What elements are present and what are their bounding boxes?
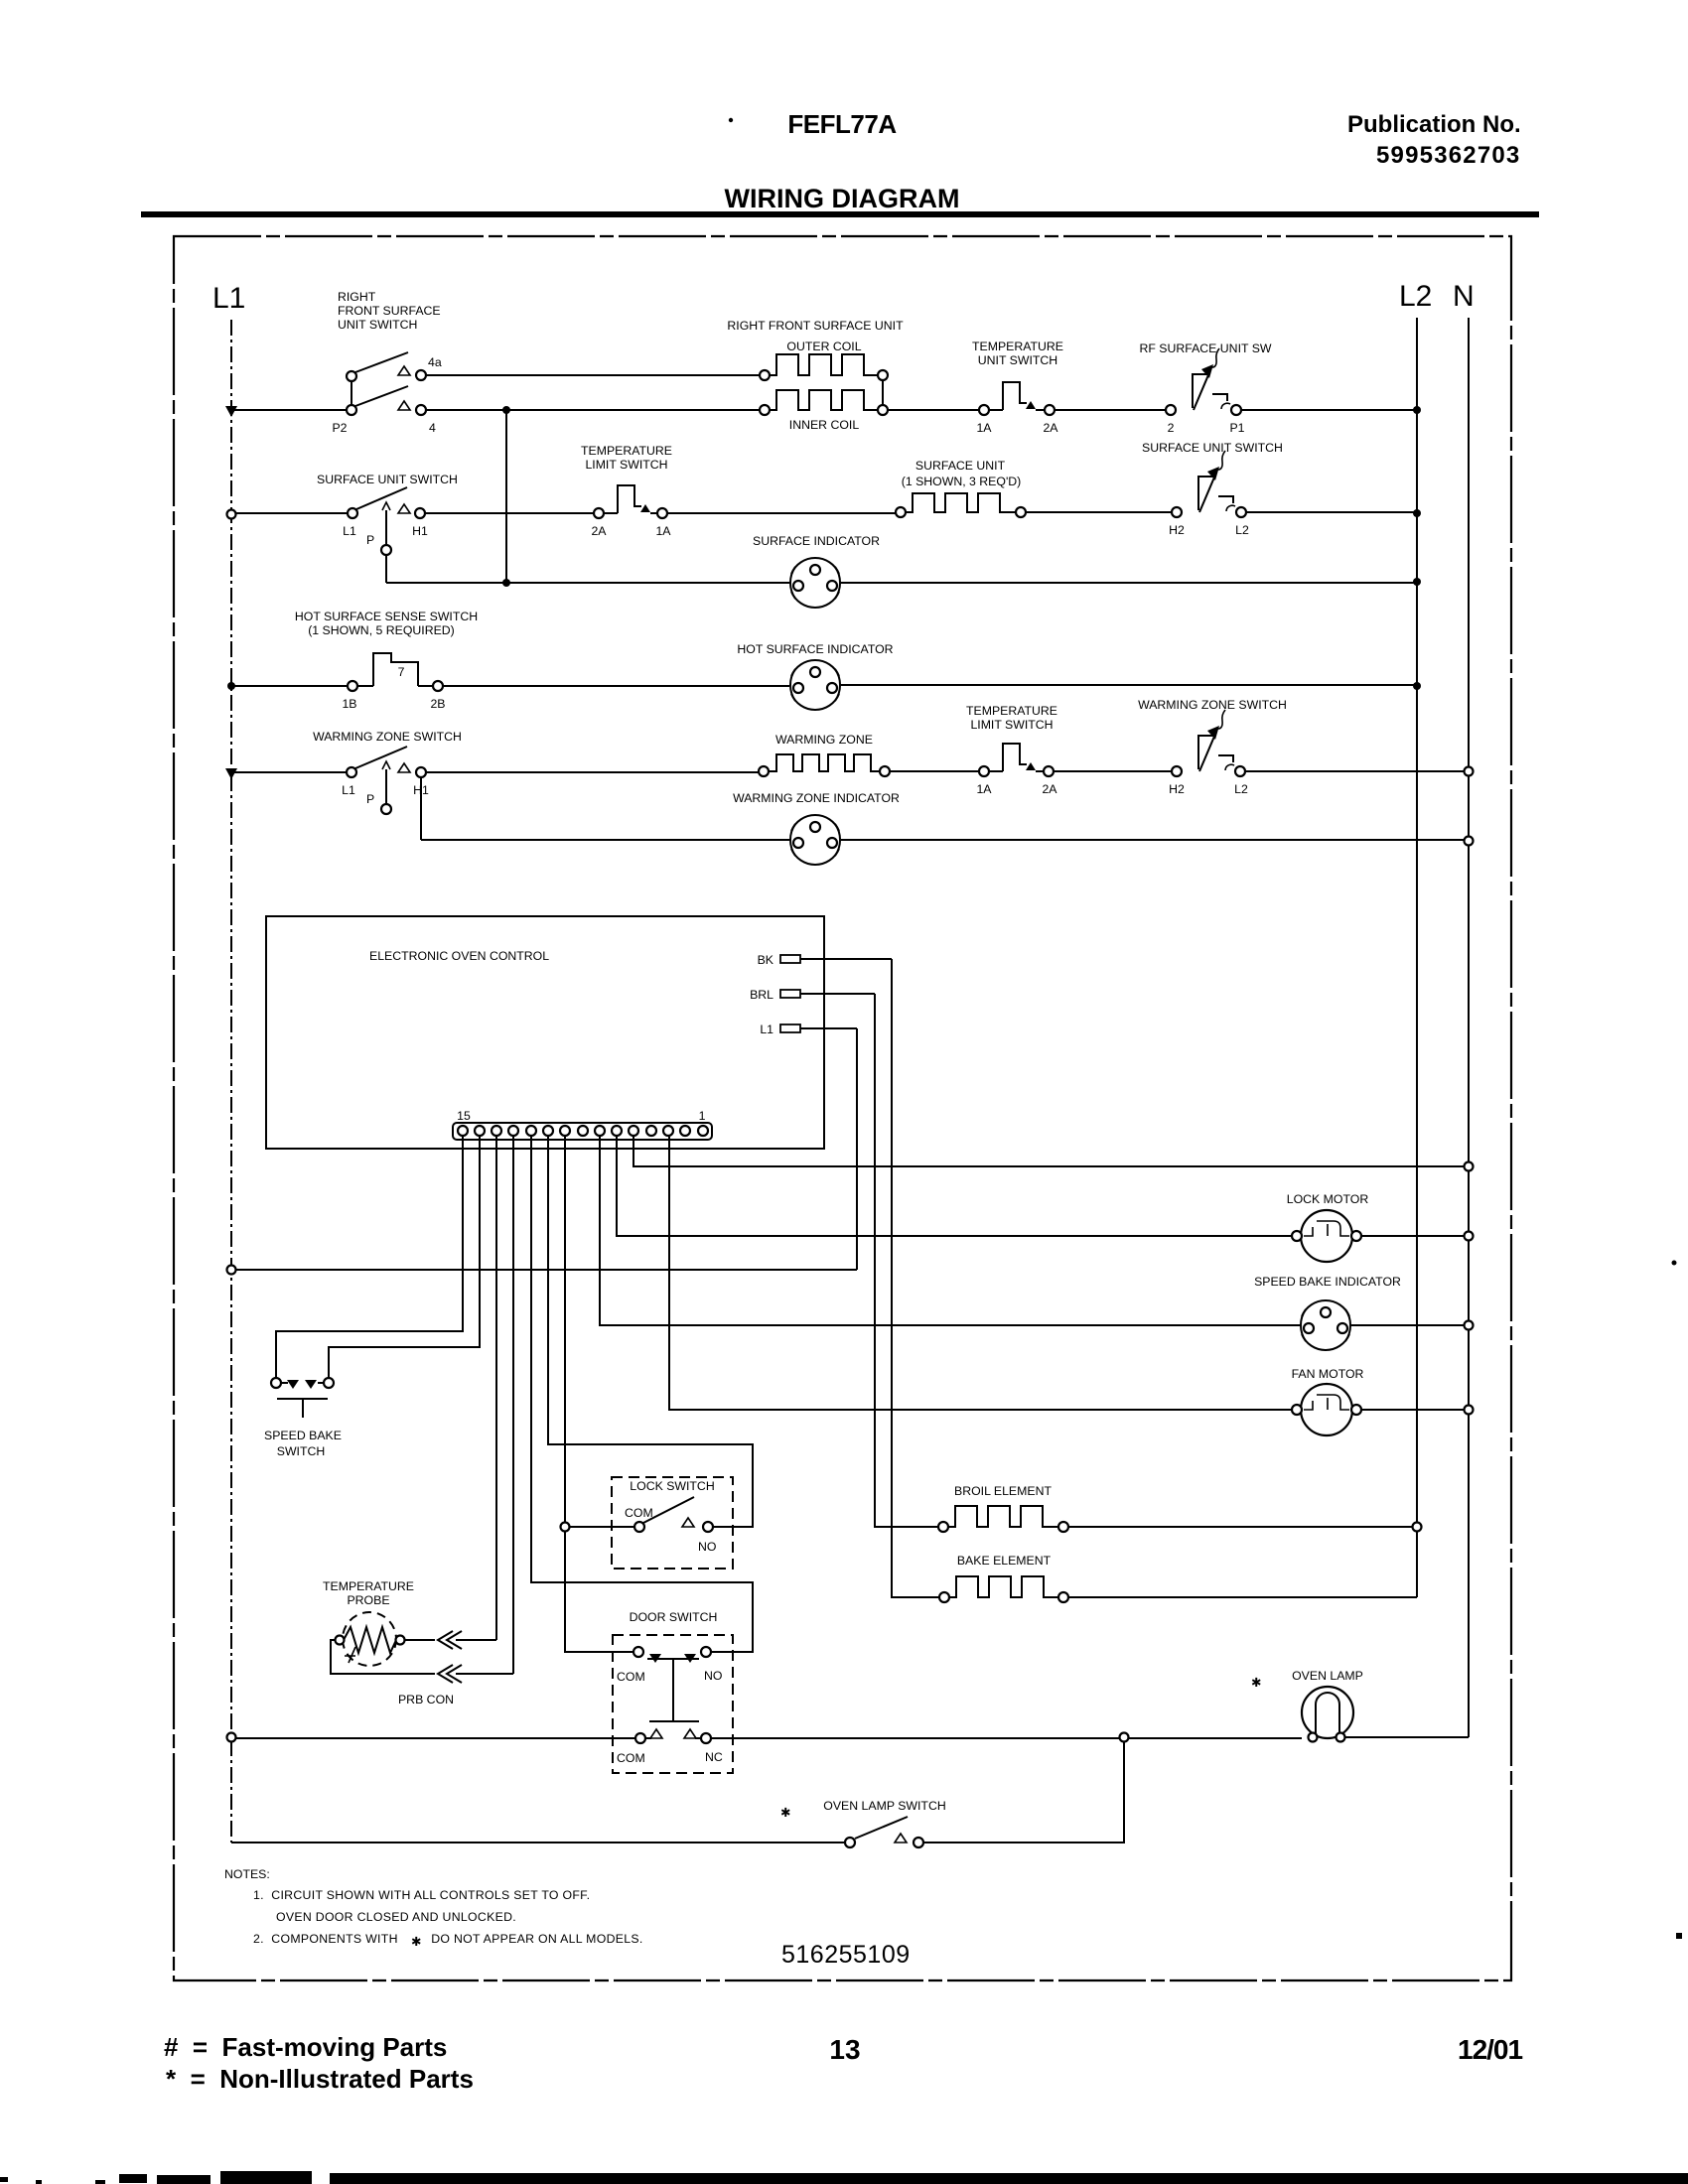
switch RF surface unit sw (1166, 348, 1241, 415)
thermostat temperature unit switch row1 (979, 382, 1055, 415)
svg-text:2. COMPONENTS WITH DO: 2. COMPONENTS WITH DO NOT APPEAR ON ALL … (253, 1932, 643, 1946)
junction arrow L1 row4 (225, 768, 237, 779)
resistor temperature probe (336, 1612, 405, 1666)
wire pin10 to lock switch NO (548, 1137, 753, 1527)
wire pin12 to probe connector (512, 1137, 514, 1674)
junction circle speed bake indicator/N (1465, 1321, 1474, 1330)
svg-text:(1 SHOWN, 3 REQ'D): (1 SHOWN, 3 REQ'D) (902, 475, 1022, 488)
wire pin15 to speed bake switch (276, 1137, 463, 1378)
svg-text:1B: 1B (342, 697, 356, 711)
svg-text:TEMPERATURE: TEMPERATURE (972, 340, 1063, 353)
junction circle L1/lamp row (227, 1733, 236, 1742)
wire lamp switch up to lamp row (923, 1742, 1124, 1843)
svg-text:LOCK MOTOR: LOCK MOTOR (1287, 1192, 1369, 1206)
junction dot L1 row3 (227, 682, 235, 690)
svg-text:TEMPERATURE: TEMPERATURE (323, 1579, 414, 1593)
wire L1 to door switch NC row (236, 1737, 635, 1739)
junction circle L1 row2 (227, 510, 236, 519)
junction arrow L1 row1 (225, 406, 237, 417)
outer dashed border of diagram (174, 236, 1511, 1980)
svg-text:DOOR SWITCH: DOOR SWITCH (630, 1610, 718, 1624)
wire 2A to warming zone switch right (1054, 770, 1172, 772)
wire oven lamp to N corner (1345, 1736, 1469, 1738)
svg-text:COM: COM (625, 1506, 653, 1520)
wire indicator row left (386, 582, 789, 584)
wire BK down to bake element (892, 959, 939, 1597)
wire P1 to L2 (1241, 409, 1417, 411)
svg-text:4: 4 (429, 421, 436, 435)
connector chevron upper (438, 1631, 462, 1649)
wire 4a to outer coil (426, 374, 760, 376)
wire lock COM feed (570, 1526, 634, 1528)
svg-text:SWITCH: SWITCH (277, 1444, 326, 1458)
svg-text:H2: H2 (1169, 523, 1185, 537)
svg-text:TEMPERATURE: TEMPERATURE (581, 444, 672, 458)
speck dot left of title (729, 118, 733, 122)
svg-text:L2: L2 (1235, 523, 1249, 537)
svg-text:P2: P2 (332, 421, 347, 435)
svg-text:(1 SHOWN, 5 REQUIRED): (1 SHOWN, 5 REQUIRED) (308, 623, 455, 637)
svg-text:UNIT SWITCH: UNIT SWITCH (978, 353, 1057, 367)
wire EOC L1 down to L1 row (856, 1028, 858, 1270)
svg-text:H1: H1 (412, 524, 428, 538)
svg-text:✱: ✱ (1251, 1676, 1261, 1690)
wire door NC to oven lamp (711, 1737, 1302, 1739)
svg-text:LIMIT SWITCH: LIMIT SWITCH (585, 458, 667, 472)
svg-text:WARMING ZONE INDICATOR: WARMING ZONE INDICATOR (733, 791, 900, 805)
junction dot row3/L2 (1413, 682, 1421, 690)
wire probe left lead loop (331, 1640, 435, 1674)
wire H1 to warming zone coil (426, 771, 759, 773)
lamp oven lamp (1302, 1687, 1353, 1742)
heater outer coil (760, 354, 888, 380)
svg-text:2A: 2A (591, 524, 607, 538)
wire L1 lead (800, 1027, 857, 1029)
switch speed bake switch (271, 1378, 334, 1418)
wire warming zone switch to N (1245, 770, 1465, 772)
switch warming zone switch right (1172, 710, 1245, 776)
wire BRL lead (800, 993, 875, 995)
svg-text:OVEN DOOR CLOSED AND UNLOCKED.: OVEN DOOR CLOSED AND UNLOCKED. (276, 1910, 516, 1924)
svg-text:2A: 2A (1042, 782, 1057, 796)
svg-text:COM: COM (617, 1751, 645, 1765)
svg-text:NOTES:: NOTES: (224, 1867, 270, 1881)
junction circle lock switch feed (561, 1523, 570, 1532)
wire bake element to L2 end (1068, 1596, 1417, 1598)
junction dot row1 node to indicator feeder (502, 406, 510, 414)
svg-text:L1: L1 (342, 783, 355, 797)
wire warming zone indicator to N (841, 839, 1465, 841)
svg-text:L1: L1 (760, 1023, 774, 1036)
wire warming zone indicator row left (421, 839, 789, 841)
svg-text:WARMING ZONE: WARMING ZONE (775, 733, 873, 747)
scan artifact specks (1672, 1261, 1677, 1266)
svg-text:7: 7 (398, 665, 405, 679)
wire fan motor to N (1361, 1409, 1465, 1411)
svg-text:TEMPERATURE: TEMPERATURE (966, 704, 1057, 718)
lamp hot surface indicator (790, 660, 840, 710)
wire coil to temperature limit switch row4 (890, 770, 979, 772)
svg-text:P: P (366, 792, 374, 806)
junction dot indicator row/L2 (1413, 578, 1421, 586)
switch oven lamp switch (845, 1817, 923, 1847)
wire coil to surface unit switch right row2 (1026, 511, 1172, 513)
switch S1 right front surface unit switch (347, 352, 426, 415)
wire pin13 to probe connector (495, 1137, 497, 1640)
wire 2A to RF switch (1055, 409, 1166, 411)
svg-text:516255109: 516255109 (781, 1941, 911, 1969)
svg-text:L1: L1 (212, 282, 245, 315)
svg-text:FEFL77A: FEFL77A (787, 109, 897, 139)
svg-text:WARMING ZONE SWITCH: WARMING ZONE SWITCH (313, 730, 462, 744)
wire pin3 to fan motor row (669, 1137, 1292, 1410)
wire 1A to surface unit coil (667, 512, 896, 514)
wire pin11 to door switch NO (531, 1137, 753, 1652)
wire sense switch to hot surface indicator (443, 685, 789, 687)
svg-text:RF SURFACE UNIT SW: RF SURFACE UNIT SW (1140, 341, 1272, 355)
svg-text:INNER COIL: INNER COIL (789, 418, 860, 432)
lamp speed bake indicator (1301, 1300, 1350, 1350)
wire chevron to pin12 (456, 1673, 513, 1675)
wire chevron to pin13 (456, 1639, 496, 1641)
svg-text:1A: 1A (976, 421, 992, 435)
svg-text:PROBE: PROBE (347, 1593, 389, 1607)
lock switch enclosure (dashed) (612, 1477, 733, 1569)
svg-text:# = Fast-moving Parts: # = Fast-moving Parts (164, 2032, 447, 2062)
junction dot feeder/indicator row (502, 579, 510, 587)
svg-text:LIMIT SWITCH: LIMIT SWITCH (970, 718, 1053, 732)
svg-text:H2: H2 (1169, 782, 1185, 796)
wire L1 to P2 (231, 409, 347, 411)
svg-text:2A: 2A (1043, 421, 1058, 435)
wire L2 contact to L2 bus row2 (1246, 511, 1417, 513)
connector chevron lower (438, 1665, 462, 1683)
scan artifact bottom bar (330, 2173, 1688, 2184)
connector strip P1 of EOC (453, 1123, 712, 1140)
wire L1 to warming zone switch (231, 771, 347, 773)
switch door switch lower pole (635, 1729, 711, 1743)
junction circle broil/L2 (1413, 1523, 1422, 1532)
junction circle L1 bus/L1 row (227, 1266, 236, 1275)
wire H1 to temperature limit switch row2 (425, 512, 594, 514)
junction circle pin5 row/N (1465, 1162, 1474, 1171)
wire L1 to sense switch (231, 685, 348, 687)
svg-text:L2: L2 (1399, 280, 1432, 313)
svg-text:15: 15 (457, 1109, 471, 1123)
wire L1 row to EOC (236, 1269, 857, 1271)
svg-text:BRL: BRL (750, 988, 774, 1002)
junction circle indicator row/N (1465, 837, 1474, 846)
thermostat temperature limit switch row2 (594, 485, 667, 518)
wire lock motor to N (1361, 1235, 1465, 1237)
svg-text:SPEED BAKE INDICATOR: SPEED BAKE INDICATOR (1254, 1275, 1401, 1289)
svg-text:NO: NO (704, 1669, 722, 1683)
wire pin6 to lock motor row (617, 1137, 1292, 1236)
svg-text:SURFACE UNIT SWITCH: SURFACE UNIT SWITCH (317, 473, 458, 486)
svg-text:✱: ✱ (411, 1935, 421, 1949)
power rail L2 bus (1416, 318, 1418, 1597)
switch lock switch (634, 1497, 713, 1532)
junction circle fan motor/N (1465, 1406, 1474, 1415)
svg-text:L1: L1 (343, 524, 356, 538)
svg-text:1: 1 (699, 1109, 706, 1123)
wire hot surface indicator to L2 (841, 684, 1417, 686)
svg-text:BROIL ELEMENT: BROIL ELEMENT (954, 1484, 1052, 1498)
wire indicator row right to L2 (841, 582, 1417, 584)
wire feeder row1 down to indicator row (505, 410, 507, 583)
svg-text:BK: BK (758, 953, 774, 967)
wire joining coil right ends (882, 380, 884, 405)
svg-text:LOCK SWITCH: LOCK SWITCH (630, 1479, 714, 1493)
motor M2 fan motor (1292, 1384, 1361, 1435)
heater surface unit coil (896, 493, 1026, 517)
power rail N bus (1468, 318, 1470, 1737)
wire pin5 to N row (633, 1137, 1465, 1166)
svg-text:NC: NC (705, 1750, 723, 1764)
thick horizontal rule (141, 211, 1539, 217)
junction circle lock motor/N (1465, 1232, 1474, 1241)
svg-text:WIRING DIAGRAM: WIRING DIAGRAM (725, 184, 960, 213)
switch surface unit switch (left) row2 (348, 487, 425, 555)
door switch enclosure (dashed) (613, 1635, 733, 1773)
svg-text:FRONT SURFACE: FRONT SURFACE (338, 304, 441, 318)
svg-text:RIGHT: RIGHT (338, 290, 376, 304)
wire L1 to switch row2 (236, 512, 348, 514)
svg-text:BAKE ELEMENT: BAKE ELEMENT (957, 1554, 1052, 1568)
heater broil element (938, 1506, 1068, 1532)
svg-text:SPEED BAKE: SPEED BAKE (264, 1429, 342, 1442)
svg-text:FAN MOTOR: FAN MOTOR (1292, 1367, 1364, 1381)
switch door switch upper pole (633, 1647, 711, 1721)
wire 4 to inner coil (426, 409, 760, 411)
wire pin9 to lock/door COM (565, 1137, 633, 1652)
switch hot surface sense switch (348, 653, 443, 691)
svg-text:RIGHT FRONT SURFACE UNIT: RIGHT FRONT SURFACE UNIT (727, 319, 904, 333)
svg-text:COM: COM (617, 1670, 645, 1684)
wire pin7 to speed bake indicator row (600, 1137, 1300, 1325)
svg-text:Publication No.: Publication No. (1347, 111, 1521, 138)
svg-text:HOT SURFACE INDICATOR: HOT SURFACE INDICATOR (737, 642, 893, 656)
svg-text:SURFACE UNIT SWITCH: SURFACE UNIT SWITCH (1142, 441, 1283, 455)
wire pin14 to speed bake switch (329, 1137, 480, 1378)
switch warming zone switch left (347, 747, 426, 814)
svg-text:2: 2 (1168, 421, 1175, 435)
svg-text:ELECTRONIC OVEN CONTROL: ELECTRONIC OVEN CONTROL (369, 949, 549, 963)
svg-text:UNIT SWITCH: UNIT SWITCH (338, 318, 417, 332)
svg-text:HOT SURFACE SENSE SWITCH: HOT SURFACE SENSE SWITCH (295, 610, 478, 623)
svg-text:2B: 2B (430, 697, 445, 711)
svg-text:1A: 1A (655, 524, 671, 538)
lamp warming zone indicator (790, 815, 840, 865)
wire P contact down to indicator row (385, 555, 387, 583)
svg-text:SURFACE UNIT: SURFACE UNIT (915, 459, 1006, 473)
heater inner coil (760, 390, 888, 415)
svg-text:1A: 1A (976, 782, 992, 796)
wire BRL down to broil element (875, 994, 938, 1527)
wire broil element to L2 (1068, 1526, 1417, 1528)
svg-text:1. CIRCUIT SHOWN WITH ALL CON: 1. CIRCUIT SHOWN WITH ALL CONTROLS SET T… (253, 1888, 590, 1902)
switch surface unit switch right row2 (1172, 451, 1246, 517)
svg-text:OUTER COIL: OUTER COIL (786, 340, 861, 353)
svg-text:N: N (1453, 280, 1475, 313)
junction circle lamp switch tap (1120, 1733, 1129, 1742)
wire H1 down to indicator row (420, 777, 422, 840)
motor M1 lock motor (1292, 1210, 1361, 1262)
svg-text:PRB CON: PRB CON (398, 1693, 454, 1706)
svg-text:P1: P1 (1229, 421, 1244, 435)
heater warming zone coil (759, 754, 890, 776)
svg-text:* = Non-Illustrated Parts: * = Non-Illustrated Parts (166, 2064, 474, 2094)
svg-text:SURFACE INDICATOR: SURFACE INDICATOR (753, 534, 880, 548)
EOC box U1 electronic oven control (266, 916, 824, 1149)
wire BK lead (800, 958, 892, 960)
heater bake element (939, 1576, 1068, 1602)
svg-text:OVEN LAMP SWITCH: OVEN LAMP SWITCH (823, 1799, 945, 1813)
svg-text:P: P (366, 533, 374, 547)
svg-text:12/01: 12/01 (1458, 2034, 1522, 2065)
wire speed bake indicator to N (1351, 1324, 1465, 1326)
wire probe right lead to chevron (405, 1639, 435, 1641)
svg-text:L2: L2 (1234, 782, 1248, 796)
svg-text:OVEN LAMP: OVEN LAMP (1292, 1669, 1363, 1683)
svg-text:13: 13 (829, 2034, 860, 2065)
junction dot row2/L2 (1413, 509, 1421, 517)
lamp surface indicator (790, 558, 840, 608)
thermostat temperature limit switch row4 (979, 744, 1054, 776)
junction circle row4/N (1465, 767, 1474, 776)
svg-text:NO: NO (698, 1540, 716, 1554)
wire coils to temperature unit switch (888, 409, 979, 411)
wire L1 corner to lamp switch (231, 1842, 845, 1843)
svg-text:✱: ✱ (780, 1806, 790, 1820)
power rail L1 bus (dash-dot vertical) (230, 320, 232, 1843)
svg-text:WARMING ZONE SWITCH: WARMING ZONE SWITCH (1138, 698, 1287, 712)
junction dot row1/L2 (1413, 406, 1421, 414)
svg-text:5995362703: 5995362703 (1376, 142, 1520, 169)
svg-text:4a: 4a (428, 355, 442, 369)
